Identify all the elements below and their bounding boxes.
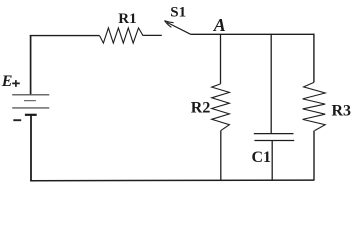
svg-text:C1: C1 (252, 149, 272, 166)
svg-text:S1: S1 (170, 4, 186, 20)
svg-text:E: E (1, 73, 13, 90)
svg-text:R3: R3 (332, 103, 352, 120)
svg-text:A: A (213, 15, 226, 35)
svg-text:R1: R1 (118, 11, 136, 27)
svg-text:R2: R2 (191, 100, 211, 117)
